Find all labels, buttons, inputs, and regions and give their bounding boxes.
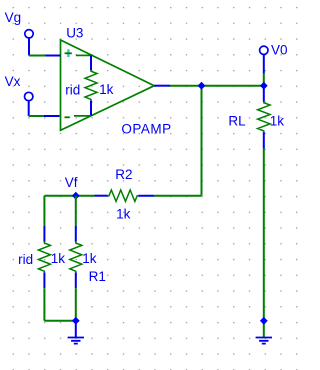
op-amp U3 minus input mark [64, 116, 69, 118]
port V0 terminal circle [260, 46, 268, 54]
op-amp internal resistor rid bottom lead [90, 101, 92, 116]
wire bottom joining to ground [44, 320, 75, 322]
port Vg terminal circle [25, 30, 33, 38]
op-amp U3 pin - (inverting input) [44, 115, 60, 117]
op-amp U3 output pin [154, 85, 170, 87]
wire RL to ground [263, 149, 265, 338]
op-amp internal lead from + to rid [76, 54, 91, 56]
svg-text:1k: 1k [99, 82, 114, 97]
resistor RL top lead [263, 86, 265, 102]
resistor R2 left lead [95, 195, 108, 197]
node junction Vf [73, 193, 79, 199]
svg-text:rid: rid [18, 252, 33, 267]
svg-text:V0: V0 [271, 43, 288, 58]
wire rid bottom down [43, 288, 45, 321]
node junction at V0/RL [261, 83, 267, 89]
svg-text:RL: RL [228, 114, 246, 129]
wire Vf down right branch [75, 196, 77, 226]
op-amp internal resistor rid top lead [90, 55, 92, 70]
node junction right ground [261, 318, 267, 324]
op-amp internal resistor rid zigzag [85, 70, 97, 101]
svg-text:1k: 1k [270, 114, 285, 129]
svg-text:1k: 1k [82, 251, 97, 266]
wire V0 stub to node [263, 74, 265, 86]
node junction left ground [73, 318, 79, 324]
wire Vx to op-amp [29, 115, 44, 117]
ground right symbol [256, 338, 272, 344]
svg-text:Vg: Vg [5, 10, 22, 25]
op-amp U3 plus input mark [67, 49, 68, 57]
resistor R2 zigzag [108, 190, 139, 201]
svg-text:rid: rid [65, 83, 80, 98]
resistor R1 zigzag [70, 242, 82, 273]
svg-text:Vx: Vx [5, 74, 21, 89]
op-amp internal lead from rid to - [74, 115, 91, 117]
port Vx terminal circle [25, 92, 33, 100]
op-amp U3 triangle body [61, 40, 155, 130]
svg-text:1k: 1k [51, 251, 66, 266]
wire Vf horizontal [44, 195, 94, 197]
svg-text:Vf: Vf [65, 175, 78, 190]
resistor rid zigzag [38, 242, 50, 273]
wire op-amp output to node [170, 85, 264, 87]
port Vg stub [28, 38, 30, 56]
wire R1 bottom down [75, 288, 77, 321]
wire Vf down left branch [43, 196, 45, 226]
resistor R1 top lead [75, 226, 77, 242]
port Vx stub [28, 101, 30, 116]
ground left stub [75, 321, 77, 338]
svg-text:R2: R2 [115, 167, 132, 182]
wire output node down to feedback [201, 86, 203, 196]
port V0 stub [263, 55, 265, 74]
resistor rid top lead [43, 226, 45, 242]
ground left symbol [68, 338, 84, 344]
wire Vg to op-amp [29, 55, 45, 57]
svg-text:1k: 1k [116, 206, 131, 221]
svg-text:OPAMP: OPAMP [121, 121, 171, 136]
resistor RL zigzag [258, 102, 270, 133]
svg-text:U3: U3 [66, 26, 83, 41]
resistor R2 right lead [138, 195, 154, 197]
resistor R1 bottom lead [75, 272, 77, 288]
node junction at output [198, 83, 204, 89]
wire R2 to feedback riser [154, 195, 201, 197]
svg-text:R1: R1 [89, 269, 106, 284]
resistor RL bottom lead [263, 132, 265, 149]
resistor rid bottom lead [43, 272, 45, 288]
op-amp U3 pin + (noninverting input) [45, 55, 60, 57]
